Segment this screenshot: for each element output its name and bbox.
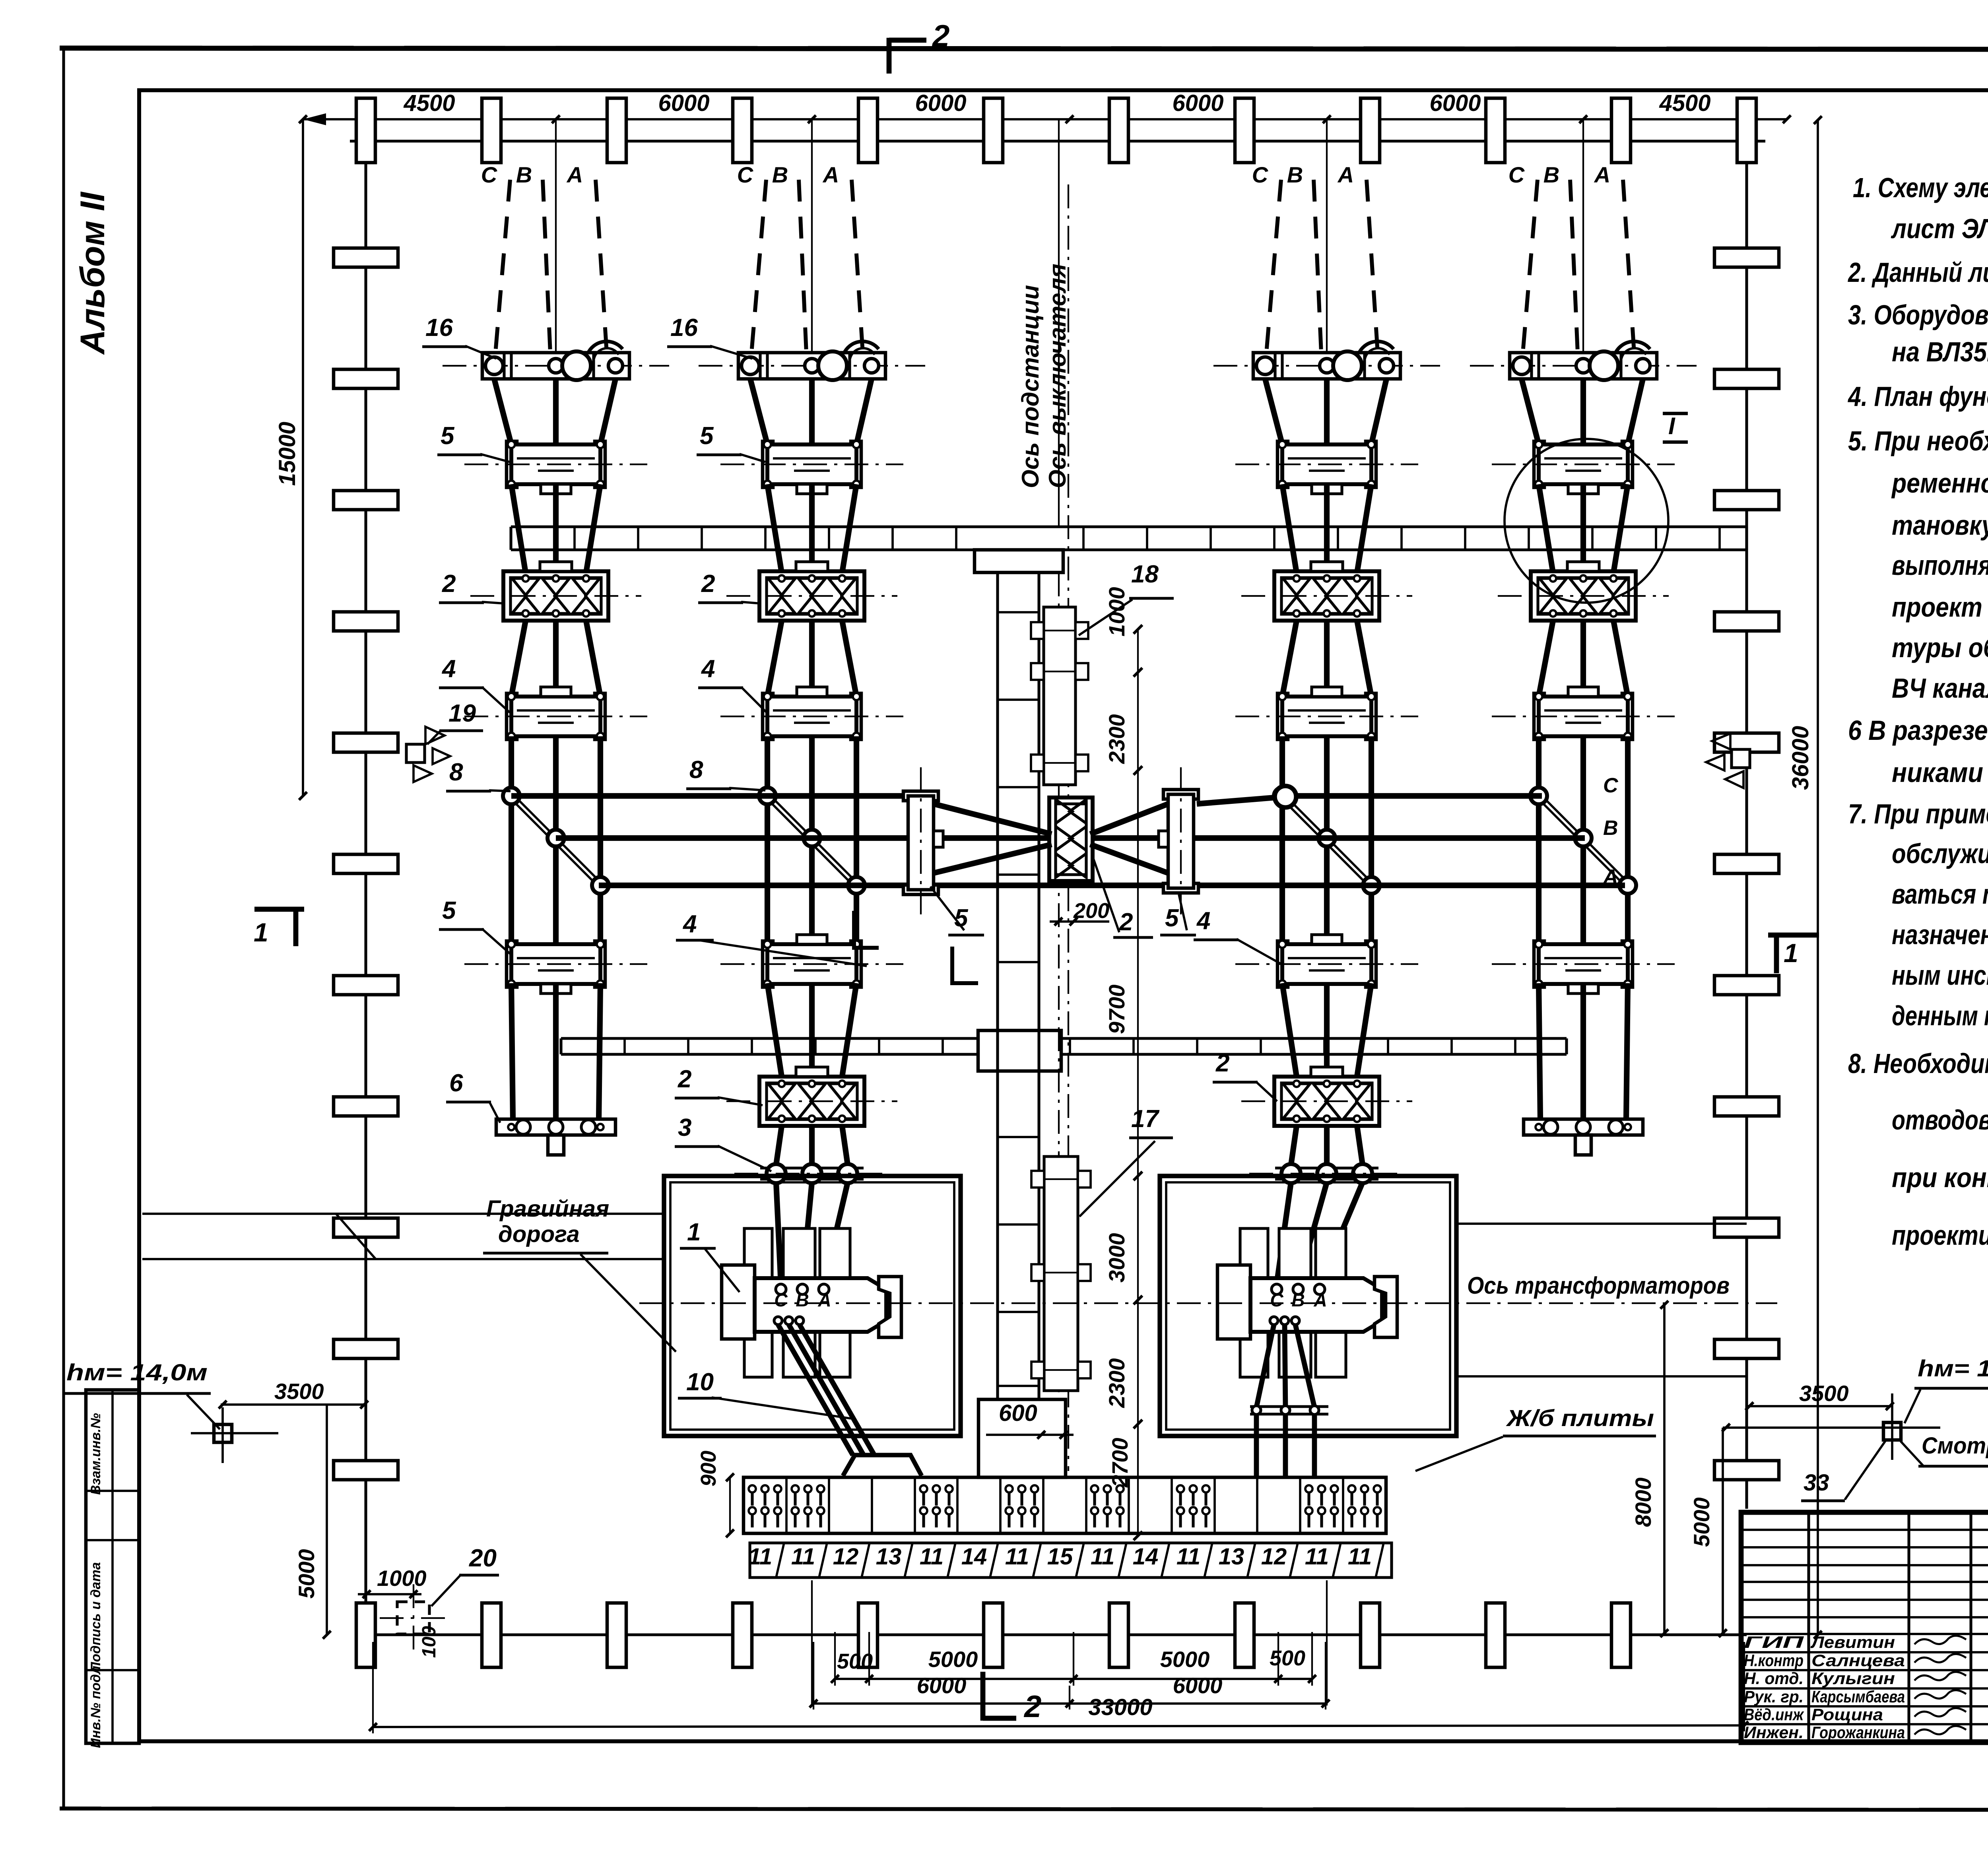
lightning rod right: [1883, 1422, 1901, 1440]
inner bay wire B: [809, 983, 815, 1077]
bay 3 junction node A: [1363, 877, 1380, 894]
bay 4 incoming phase C dashed: [1523, 180, 1538, 353]
bay 4 incoming phase A dashed: [1623, 180, 1634, 353]
gantry hook arc: [844, 342, 879, 354]
svg-text:С: С: [737, 162, 754, 187]
svg-text:2300: 2300: [1104, 1358, 1129, 1408]
svg-text:6000: 6000: [917, 1673, 967, 1698]
gantry insulator B: [1576, 359, 1590, 373]
stand 5 right vertical: [1163, 790, 1198, 799]
svg-text:14: 14: [1133, 1544, 1159, 1570]
ladder rung: [998, 1385, 1039, 1387]
equipment stand body: [1534, 441, 1544, 487]
ladder rung: [998, 1223, 1039, 1226]
bay 2 incoming phase A dashed: [852, 180, 863, 353]
cell divider: [1042, 1477, 1044, 1533]
svg-text:тановку аппаратуры для средней: тановку аппаратуры для средней фазы: [1892, 510, 1988, 541]
svg-text:3500: 3500: [1799, 1381, 1849, 1406]
svg-text:Взам.инв.№: Взам.инв.№: [88, 1413, 103, 1495]
bay 3 wire C to bus: [1279, 736, 1285, 945]
disconnector axis: [1241, 595, 1412, 597]
disconnector contact: [1313, 1084, 1340, 1100]
fence post right: [1714, 976, 1779, 995]
bay 4 wire B: [1580, 484, 1586, 573]
disconnector contact: [1313, 578, 1340, 595]
outer bay wire B anchor: [1580, 983, 1586, 1119]
disconnector body: [1531, 571, 1636, 621]
inner bay wire C: [1282, 983, 1297, 1077]
transformer tank: [1250, 1278, 1382, 1332]
LV cable trough: [843, 1455, 922, 1476]
ladder rung: [998, 699, 1039, 701]
svg-text:Ось подстанции: Ось подстанции: [1017, 285, 1044, 488]
svg-text:16: 16: [425, 314, 453, 342]
disconnector body: [759, 1077, 864, 1126]
LV cable bundle: [1256, 1325, 1274, 1407]
disconnector contact: [1570, 578, 1597, 595]
svg-text:Салнцева: Салнцева: [1811, 1651, 1905, 1670]
equipment stand axis: [720, 716, 903, 717]
beam joint: [1260, 1038, 1262, 1054]
svg-text:6000: 6000: [915, 90, 966, 116]
svg-text:В: В: [1287, 162, 1303, 187]
line gantry 16 bar: [738, 353, 885, 379]
equipment stand axis: [464, 716, 647, 717]
beam joint: [1400, 527, 1403, 550]
bay 4 wire A lower: [1613, 621, 1628, 697]
svg-text:10: 10: [686, 1368, 714, 1396]
grounding box 20 dashed: [397, 1602, 429, 1634]
wire to transformer bushing C: [1277, 1182, 1291, 1284]
svg-text:2: 2: [1023, 1689, 1041, 1724]
fence post right: [1714, 369, 1779, 388]
fence post top: [858, 98, 878, 163]
bay 3 axis line: [1326, 119, 1328, 354]
disconnector tab: [796, 562, 828, 571]
svg-text:33000: 33000: [1088, 1694, 1152, 1720]
svg-text:В: В: [1291, 1290, 1305, 1310]
equipment stand body: [1534, 941, 1544, 987]
detail mark I: [1663, 412, 1688, 415]
ladder rung: [998, 611, 1039, 613]
bay 1 wire B: [553, 484, 559, 573]
beam joint: [1450, 1038, 1453, 1054]
fence post left: [334, 1218, 398, 1237]
fence post top: [607, 98, 626, 163]
svg-text:500: 500: [837, 1649, 873, 1673]
equipment stand axis: [1492, 464, 1675, 465]
svg-text:при конкретном: при конкретном: [1892, 1162, 1988, 1193]
disconnector axis: [470, 595, 641, 597]
corridor ladder rail left: [996, 572, 999, 1399]
bay 3 wire B to bus: [1324, 736, 1330, 945]
bay 2 junction node B: [804, 830, 820, 846]
beam joint: [1323, 1038, 1326, 1054]
bay 3 wire C: [1282, 484, 1297, 573]
svg-text:5000: 5000: [928, 1647, 978, 1672]
cell divider: [1256, 1477, 1258, 1533]
svg-text:8: 8: [689, 756, 703, 784]
road edge diagonal: [336, 1214, 376, 1259]
svg-text:2: 2: [701, 570, 715, 598]
svg-text:36000: 36000: [1788, 726, 1813, 790]
svg-text:8000: 8000: [1631, 1477, 1656, 1527]
clamp bar 3: [1275, 1166, 1378, 1169]
disconnector body: [759, 571, 864, 621]
bay 4 junction node B: [1575, 830, 1592, 846]
svg-text:13: 13: [1219, 1544, 1244, 1570]
svg-text:на ВЛ35кВ.: на ВЛ35кВ.: [1892, 336, 1988, 367]
fence post left: [334, 491, 398, 510]
transformer axis line: [639, 1302, 1777, 1304]
gantry hook arc: [1359, 342, 1394, 354]
fence post left: [334, 369, 398, 388]
disconnector contact: [829, 578, 856, 595]
central dim chain: [1134, 625, 1142, 634]
clamp bar 3: [760, 1166, 864, 1169]
beam joint: [1082, 527, 1085, 550]
ladder rung: [998, 1136, 1039, 1138]
fence bottom line: [366, 1633, 1747, 1636]
svg-text:11: 11: [1091, 1544, 1114, 1570]
svg-text:100: 100: [419, 1626, 440, 1658]
bay 4 incoming phase B dashed: [1570, 180, 1578, 353]
transformer enclosure: [664, 1176, 961, 1436]
transformer HV bushing B: [1293, 1284, 1303, 1294]
equipment stand body: [763, 941, 773, 987]
svg-text:7. При применении на подстанци: 7. При применении на подстанции пункта у…: [1848, 798, 1988, 829]
svg-text:2: 2: [932, 18, 949, 53]
svg-text:6 В разрезе 2-2 молниеотвод: 6 В разрезе 2-2 молниеотвод и опора со с…: [1848, 715, 1988, 746]
svg-text:11: 11: [748, 1544, 772, 1570]
gantry insulator C: [1256, 357, 1274, 375]
equipment stand body: [1534, 693, 1544, 739]
stand tab: [1312, 484, 1342, 494]
beam joint: [828, 527, 830, 550]
fence post bottom: [1235, 1603, 1254, 1667]
cell divider: [1299, 1477, 1301, 1533]
beam joint: [687, 1038, 689, 1054]
section mark 2 top: [887, 38, 892, 74]
equipment stand body: [507, 441, 517, 487]
detail callout circle I: [1505, 439, 1668, 603]
transformer enclosure: [1160, 1176, 1456, 1436]
gantry insulator A: [864, 359, 879, 373]
bay 3 junction node C: [1274, 788, 1291, 804]
bay 1 wire A to bus: [598, 736, 603, 945]
equipment stand body: [507, 693, 517, 739]
equipment stand body: [1277, 693, 1288, 739]
fence post right: [1714, 1218, 1779, 1237]
svg-text:5: 5: [700, 422, 714, 450]
fence post left: [334, 854, 398, 873]
fence post right: [1714, 1461, 1779, 1480]
stand tab: [1568, 484, 1598, 494]
svg-text:hм= 14,0м: hм= 14,0м: [66, 1360, 208, 1385]
disconnector axis: [726, 595, 897, 597]
bowtie jumper right bottom: [1090, 844, 1168, 873]
transformer tank: [755, 1278, 886, 1332]
cell fuse group: [1006, 1485, 1013, 1492]
beam joint: [942, 1038, 944, 1054]
stand tab: [1312, 687, 1342, 697]
svg-text:В: В: [1543, 162, 1559, 187]
svg-text:С: С: [1270, 1290, 1283, 1310]
beam joint: [1069, 1038, 1071, 1054]
stand tab: [541, 687, 571, 697]
beam joint: [701, 527, 703, 550]
svg-text:900: 900: [697, 1451, 720, 1486]
bay 1 wire B lower: [553, 621, 559, 697]
svg-text:А: А: [817, 1290, 831, 1310]
stand tab: [797, 687, 827, 697]
fence post bottom: [733, 1603, 752, 1667]
dimension 36000 line: [1817, 120, 1819, 1635]
fence post right: [1714, 248, 1779, 267]
svg-text:4: 4: [441, 655, 456, 683]
transformer HV bushing C: [776, 1284, 786, 1294]
disconnector contact: [1540, 578, 1567, 595]
transformer HV bushing B: [797, 1284, 808, 1294]
equipment 18 tab pair: [1031, 663, 1044, 680]
svg-text:1000: 1000: [1104, 587, 1129, 636]
bowtie jumper left top: [934, 804, 1052, 834]
lightning rod left: [214, 1424, 232, 1442]
cell fuse group: [749, 1485, 756, 1492]
inner bay wire A drop: [1357, 1126, 1363, 1165]
dim arrow left: [303, 113, 326, 125]
svg-text:проект 407-0-169.87 „Схемы и: проект 407-0-169.87 „Схемы и установка а…: [1892, 592, 1988, 623]
bay 4 wire B to bus: [1580, 736, 1586, 945]
title block left verticals: [1807, 1512, 1810, 1743]
disconnector body: [1274, 1077, 1379, 1126]
transformer aux box: [1217, 1265, 1250, 1339]
bay 3 junction node B: [1318, 830, 1335, 846]
svg-text:5000: 5000: [294, 1549, 319, 1599]
disconnector contact: [1283, 578, 1310, 595]
line gantry 16 bar: [482, 353, 629, 379]
gantry hook arc: [588, 342, 623, 354]
beam joint: [1514, 1038, 1516, 1054]
line gantry 16 bar: [1510, 353, 1657, 379]
svg-text:Вёд.инж: Вёд.инж: [1744, 1705, 1804, 1724]
svg-text:18: 18: [1131, 561, 1159, 588]
stand tab: [1568, 687, 1598, 697]
fence post top: [1361, 98, 1380, 163]
equipment stand body: [763, 693, 773, 739]
svg-text:3: 3: [678, 1114, 691, 1141]
section mark 1 left: [254, 907, 304, 912]
inner bay wire B drop: [809, 1126, 815, 1165]
svg-text:2: 2: [1215, 1050, 1229, 1077]
svg-text:6: 6: [449, 1069, 463, 1097]
title block left rows: [1741, 1529, 1988, 1531]
disconnector tab: [796, 1067, 828, 1077]
svg-text:5. При необходимости ВЧ обраб: 5. При необходимости ВЧ обработки трех ф…: [1848, 425, 1988, 456]
ladder rung: [998, 1311, 1039, 1313]
svg-text:А: А: [1337, 162, 1354, 187]
cell fuse group: [1091, 1485, 1098, 1492]
beam joint: [764, 527, 767, 550]
disconnector contact: [542, 578, 569, 595]
stand tab: [541, 984, 571, 994]
cell number band: [750, 1543, 1392, 1578]
disconnector contact: [1343, 1084, 1371, 1100]
svg-text:15000: 15000: [274, 422, 300, 486]
svg-text:11: 11: [1176, 1544, 1200, 1570]
view break mark left: [854, 911, 879, 948]
gantry insulator C: [1513, 357, 1530, 375]
svg-text:5000: 5000: [1160, 1647, 1210, 1672]
disconnector contact: [768, 1084, 795, 1100]
bay 1 wire C: [511, 484, 526, 573]
fence post right: [1714, 854, 1779, 873]
fence top line: [350, 140, 1765, 142]
fence post bottom: [1611, 1603, 1631, 1667]
disconnector contact: [1283, 1084, 1310, 1100]
fence post right: [1714, 733, 1779, 752]
svg-text:А: А: [822, 162, 839, 187]
bay 4 wire B lower: [1580, 621, 1586, 697]
wire to transformer bushing B: [1298, 1182, 1327, 1284]
gantry insulator B: [805, 359, 819, 373]
outer bay wire A anchor: [599, 983, 600, 1119]
dimension tick: [1066, 115, 1074, 123]
disconnector contact: [573, 578, 600, 595]
svg-text:туры обработки и присоединен: туры обработки и присоединения ВЛ35-110к…: [1892, 632, 1988, 663]
disconnector contact: [798, 1084, 825, 1100]
svg-text:6000: 6000: [1173, 1673, 1223, 1698]
inner bay wire C drop: [1291, 1126, 1297, 1165]
bay 3 incoming phase C dashed: [1266, 180, 1281, 353]
svg-text:денным протоколом Минэнерго: денным протоколом Минэнерго СССРот 04.12…: [1892, 1000, 1988, 1031]
bay 4 wire C upper: [1522, 379, 1539, 444]
svg-text:дорога: дорога: [498, 1221, 580, 1247]
svg-text:6000: 6000: [658, 90, 709, 116]
transformer LV bushings: [1270, 1317, 1278, 1325]
svg-text:2300: 2300: [1104, 714, 1129, 764]
svg-text:С: С: [481, 162, 498, 187]
transformer radiator slabs: [744, 1228, 772, 1377]
disconnector tab: [1311, 1067, 1343, 1077]
svg-text:6000: 6000: [1429, 90, 1481, 116]
svg-text:В: В: [1603, 817, 1618, 840]
fence post left: [334, 612, 398, 631]
bay 2 junction node C: [759, 788, 776, 804]
stand 5 left vertical: [903, 791, 938, 801]
bay 2 incoming phase B dashed: [799, 180, 806, 353]
transformer HV bushing A: [819, 1284, 829, 1294]
svg-text:11: 11: [920, 1544, 944, 1570]
stand tab: [797, 935, 827, 944]
svg-text:4: 4: [701, 655, 715, 683]
stand tab: [797, 484, 827, 494]
fence post left: [334, 976, 398, 995]
svg-text:В: В: [516, 162, 532, 187]
bay 3 wire B: [1324, 484, 1330, 573]
bay 4 wire A to bus: [1625, 736, 1631, 945]
cell divider: [871, 1477, 873, 1533]
transformer right cap: [1375, 1277, 1397, 1337]
disconnector contact: [1600, 578, 1627, 595]
fence post top: [482, 98, 501, 163]
fence post bottom: [1486, 1603, 1505, 1667]
anchor plate 6: [496, 1119, 615, 1135]
portal beam: [561, 1037, 1567, 1040]
svg-text:ГИП: ГИП: [1744, 1633, 1804, 1651]
svg-text:2: 2: [1119, 908, 1133, 936]
svg-text:Инв.№ подл.: Инв.№ подл.: [88, 1662, 103, 1748]
floodlight mast 19 left: [406, 744, 425, 763]
disconnector axis: [1241, 1100, 1412, 1102]
outer bay wire C anchor: [1539, 983, 1540, 1119]
svg-text:4500: 4500: [1659, 90, 1710, 116]
fence post right: [1714, 612, 1779, 631]
inner bay wire A: [1357, 983, 1371, 1077]
beam joint: [1528, 527, 1530, 550]
svg-text:600: 600: [999, 1400, 1037, 1426]
equipment 18 tab pair: [1031, 622, 1044, 639]
equipment stand body: [507, 941, 517, 987]
svg-text:5000: 5000: [1689, 1497, 1714, 1547]
fence post bottom: [482, 1603, 501, 1667]
beam joint: [1196, 1038, 1198, 1054]
svg-text:Ось трансформаторов: Ось трансформаторов: [1467, 1272, 1730, 1299]
view break mark right: [952, 947, 978, 983]
svg-text:Левитин: Левитин: [1810, 1633, 1895, 1651]
bottom dim row 2: [813, 1702, 1326, 1705]
stamp column divider 1: [86, 1490, 139, 1492]
bay 2 wire A upper: [856, 379, 872, 444]
stand tab: [1312, 935, 1342, 944]
cell divider: [1171, 1477, 1173, 1533]
svg-text:12: 12: [1261, 1544, 1287, 1570]
inner bay wire C drop: [776, 1126, 782, 1165]
cell divider: [956, 1477, 959, 1533]
anchor plate stub: [1575, 1135, 1591, 1155]
beam joint: [1337, 527, 1339, 550]
bay 4 transposition jumper: [1537, 798, 1626, 887]
bay 2 junction node A: [848, 877, 865, 894]
bay 3 incoming phase B dashed: [1314, 180, 1321, 353]
beam joint: [1209, 527, 1212, 550]
disconnector contact: [829, 1084, 856, 1100]
stand tab: [541, 484, 571, 494]
bay 4 wire A: [1613, 484, 1628, 573]
dimension tick: [1579, 115, 1587, 123]
bay 2 wire B lower: [809, 621, 815, 697]
fence post left: [334, 248, 398, 267]
svg-text:А: А: [1313, 1290, 1327, 1310]
corridor ladder rail right: [1037, 572, 1040, 1399]
fence post top: [356, 98, 375, 163]
gantry drum: [1590, 351, 1618, 380]
bay 1 wire C to bus: [509, 736, 514, 945]
gantry axis: [699, 365, 925, 367]
transformer right cap: [879, 1277, 901, 1337]
bus line top phase: [511, 793, 908, 799]
beam joint: [878, 1038, 880, 1054]
bay 1 wire A: [586, 484, 600, 573]
svg-text:никами условно не показаны.: никами условно не показаны.: [1892, 757, 1988, 788]
cell divider: [828, 1477, 830, 1533]
bay 3 wire A lower: [1357, 621, 1371, 697]
svg-text:3. Оборудование по поз.7 уста: 3. Оборудование по поз.7 устанавливается…: [1848, 299, 1988, 330]
equipment stand axis: [1235, 963, 1418, 965]
cell fuse group: [1305, 1485, 1312, 1492]
svg-text:17: 17: [1131, 1105, 1159, 1133]
bay 4 wire B upper: [1580, 379, 1586, 444]
